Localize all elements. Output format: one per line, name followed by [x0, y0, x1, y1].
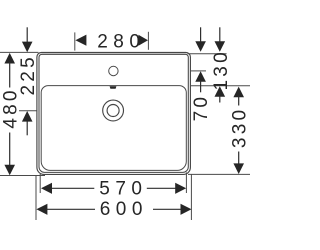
extension line 570 left	[39, 174, 41, 193]
extension tick 280 left	[74, 32, 76, 50]
extension line bottom-left	[0, 175, 45, 177]
faucet hole	[109, 66, 118, 75]
dimension 330 line with arrows	[233, 87, 244, 174]
svg-text:70: 70	[191, 94, 212, 122]
extension line drain level left	[19, 110, 37, 112]
basin outer edge	[37, 53, 191, 175]
svg-text:480: 480	[1, 87, 22, 128]
extension line 600 right	[190, 174, 192, 220]
dimension 225 top arrow	[22, 27, 33, 52]
basin bowl outline	[41, 86, 186, 171]
extension line 600 left	[35, 176, 37, 221]
dimension 480 line with arrows	[4, 53, 15, 175]
extension tick 280 right	[147, 32, 149, 50]
drain inner circle	[107, 105, 119, 117]
svg-text:570: 570	[99, 178, 147, 199]
overflow slot	[110, 86, 117, 89]
dimension 280 right arrow	[138, 35, 148, 46]
svg-text:130: 130	[211, 49, 232, 90]
dimension 600 line	[36, 204, 191, 215]
svg-text:280: 280	[97, 32, 145, 53]
dimension 70 top arrow	[195, 27, 206, 52]
extension line divider level right	[191, 85, 250, 87]
extension line top-left	[0, 51, 39, 53]
extension line bottom-right	[188, 173, 250, 175]
svg-text:330: 330	[229, 107, 250, 148]
svg-text:600: 600	[100, 199, 148, 220]
dimension 570 line	[41, 183, 186, 194]
dimension 130 top arrow	[215, 27, 226, 52]
dimension 280 left arrow	[75, 35, 86, 46]
extension line 570 right	[185, 172, 187, 193]
drain outer circle	[103, 100, 124, 121]
dimension 70 bottom arrow	[195, 71, 206, 92]
basin rim inner edge	[39, 54, 188, 172]
dimension 225 bottom arrow	[22, 111, 33, 135]
extension line top-right	[188, 53, 227, 55]
extension line 70 level right	[191, 70, 206, 72]
dimension 130 bottom arrow	[215, 86, 226, 102]
